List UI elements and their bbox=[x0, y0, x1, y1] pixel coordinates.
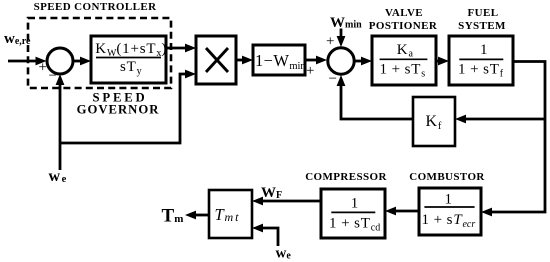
svg-text:+: + bbox=[326, 34, 334, 50]
block compressor 1/(1+sTcd) bbox=[321, 189, 385, 238]
svg-text:1: 1 bbox=[480, 42, 488, 58]
wire W_min down into S2 bbox=[337, 29, 346, 48]
svg-text:GOVERNOR: GOVERNOR bbox=[77, 103, 160, 117]
summing junction S2 bbox=[328, 48, 354, 74]
block 1-Wmin bbox=[253, 45, 306, 75]
wire 1-Wmin to S2 bbox=[305, 56, 327, 65]
svg-text:+: + bbox=[39, 59, 47, 75]
svg-text:1: 1 bbox=[445, 191, 453, 207]
wire governor to multiplier bbox=[166, 44, 196, 53]
svg-text:1 + sTf: 1 + sTf bbox=[458, 62, 504, 80]
wire input into summing junction S1 bbox=[8, 57, 47, 66]
wire multiplier to 1-Wmin block bbox=[236, 56, 253, 65]
svg-text:COMBUSTOR: COMBUSTOR bbox=[409, 171, 485, 183]
wire S1 to speed governor bbox=[74, 57, 91, 66]
wire w_e into T_mt bbox=[252, 224, 278, 246]
wire branch to K_f bbox=[455, 115, 545, 124]
svg-text:−: − bbox=[329, 71, 337, 87]
block fuel system 1/(1+sTf) bbox=[449, 36, 513, 85]
wire w_e up into S1 minus input bbox=[56, 74, 65, 170]
svg-text:SPEED CONTROLLER: SPEED CONTROLLER bbox=[34, 1, 157, 13]
svg-text:VALVE: VALVE bbox=[385, 7, 423, 19]
svg-text:FUEL: FUEL bbox=[468, 7, 499, 19]
svg-text:POSTIONER: POSTIONER bbox=[369, 20, 438, 32]
svg-text:1: 1 bbox=[351, 196, 359, 212]
svg-text:+: + bbox=[306, 63, 314, 79]
block combustor 1/(1+sTecr) bbox=[419, 188, 481, 235]
wire valve positioner to fuel system bbox=[436, 57, 449, 66]
wire K_f to S2 minus input bbox=[337, 75, 413, 119]
wire w_e branch to multiplier lower input bbox=[60, 70, 196, 143]
block T_mt bbox=[209, 190, 252, 238]
wire S2 to valve positioner bbox=[355, 57, 372, 66]
wire combustor to compressor bbox=[385, 207, 419, 216]
wire T_mt output T_m bbox=[185, 211, 209, 220]
svg-text:−: − bbox=[49, 68, 57, 84]
wire fuel system output feedback (right, down, into combustor) bbox=[481, 62, 545, 217]
multiplier block X bbox=[196, 36, 236, 84]
summing junction S1 bbox=[47, 48, 73, 74]
svg-text:COMPRESSOR: COMPRESSOR bbox=[305, 171, 387, 183]
block valve positioner Ka/(1+sTs) bbox=[372, 36, 436, 85]
svg-text:1 + sTs: 1 + sTs bbox=[380, 62, 426, 80]
wire compressor to T_mt (W_F) bbox=[252, 197, 321, 206]
block K_f bbox=[413, 97, 455, 146]
svg-text:SYSTEM: SYSTEM bbox=[458, 20, 506, 32]
speed controller dashed box bbox=[28, 18, 171, 88]
block speed governor KW(1+sTx)/sTy bbox=[91, 36, 167, 83]
